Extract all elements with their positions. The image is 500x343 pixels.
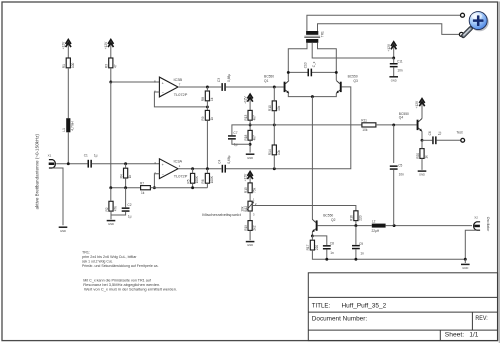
wire C11 to ground (393, 67, 395, 76)
svg-text:Primär- und Sekundärwicklung a: Primär- und Sekundärwicklung auf Ferritp… (82, 264, 159, 268)
connector X1 (48, 153, 56, 168)
resistor R15 (244, 183, 257, 193)
wire Q2 base run (318, 225, 372, 227)
wire R12 to R19 (249, 211, 251, 221)
svg-text:10n: 10n (399, 173, 405, 177)
svg-text:GND: GND (462, 266, 469, 270)
svg-text:10k: 10k (362, 128, 368, 132)
capacitor C7 (228, 131, 238, 146)
svg-text:TR1: TR1 (320, 31, 324, 37)
wire R5 bottom stub (192, 183, 194, 188)
junction R4 top on signal wire (124, 162, 127, 165)
svg-text:X1: X1 (48, 153, 52, 157)
svg-text:GND: GND (391, 78, 398, 82)
label Q4 name (399, 116, 404, 120)
svg-text:C1: C1 (84, 153, 88, 157)
wire R10 to R14 (273, 111, 275, 145)
wire feedback bottom (154, 187, 207, 189)
svg-text:R18: R18 (244, 135, 248, 141)
wire bias rail (250, 124, 362, 126)
wire R14 bottom stub (273, 155, 275, 169)
wire R2 C2 join to ground (111, 211, 126, 215)
wire R20 to ground (421, 158, 423, 170)
svg-text:TL072P: TL072P (174, 92, 188, 97)
ground (107, 221, 116, 227)
svg-text:IC3A: IC3A (174, 159, 183, 164)
wire R3 down col2 (110, 68, 112, 82)
resistor R6 (201, 173, 214, 183)
svg-text:R13: R13 (244, 115, 248, 121)
label Test (456, 131, 462, 135)
capacitor C11 (390, 59, 403, 72)
wire bias node to IC3B pin5 (111, 81, 160, 83)
svg-text:Test: Test (456, 131, 462, 135)
wire lower node to R7 (111, 187, 141, 189)
label Q2 type (323, 214, 333, 218)
junction L1 / X1 / C1 (67, 162, 70, 165)
svg-text:47: 47 (113, 64, 117, 68)
capacitor C4 (217, 155, 231, 172)
svg-text:GND: GND (419, 173, 426, 177)
svg-text:TR1:: TR1: (82, 250, 90, 254)
wire R19 to ground (249, 230, 251, 240)
junction R8 top on output (206, 86, 209, 89)
wire C1 to IC3A pin3 (92, 163, 159, 165)
resistor R11 (361, 119, 376, 133)
svg-text:X2: X2 (474, 215, 478, 219)
svg-text:R11: R11 (361, 119, 367, 123)
wire Q2 emitter (311, 232, 313, 236)
svg-text:Q3: Q3 (353, 79, 358, 83)
junction emitter rail center (311, 95, 314, 98)
resistor R7 (140, 182, 150, 196)
svg-text:Q1: Q1 (264, 79, 269, 83)
junction R5 bottom (191, 186, 194, 189)
junction R16 / base wire (354, 224, 357, 227)
junction R10 / R14 / rail (273, 123, 276, 126)
svg-text:R1: R1 (62, 64, 66, 68)
svg-text:1k: 1k (128, 174, 132, 178)
svg-text:10n: 10n (397, 69, 403, 73)
resistor R9 (201, 110, 214, 120)
junction R14 bottom on C4 wire (273, 167, 276, 170)
wire R4 top stub (125, 164, 127, 169)
junction R4 bottom / C2 top (124, 186, 127, 189)
wire pad2 to TR1 primary (318, 24, 460, 35)
svg-text:10k: 10k (277, 105, 281, 111)
wire C4 to Q3 base (226, 87, 351, 169)
transistor Q1 (284, 81, 289, 94)
ground (389, 77, 398, 83)
svg-text:Mischerarbeitspunkt: Mischerarbeitspunkt (202, 212, 242, 217)
svg-text:C11: C11 (397, 59, 403, 63)
wire R5 top stub (192, 169, 194, 174)
wire R9 to IC3A output wire (206, 120, 208, 169)
capacitor C3 (217, 74, 231, 91)
svg-text:BC550: BC550 (264, 74, 274, 78)
wire junction to R20 (421, 140, 423, 148)
wire C7 branch top (232, 125, 250, 135)
svg-text:7: 7 (179, 83, 181, 87)
svg-text:C9: C9 (359, 242, 363, 246)
junction R5 top (191, 167, 194, 170)
resistor R14 (268, 145, 281, 155)
wire Q4 emitter down (421, 131, 423, 140)
svg-text:R14: R14 (268, 149, 272, 155)
svg-text:Document Number:: Document Number: (312, 315, 368, 322)
wire IC3A pin2 feedback (154, 174, 159, 188)
wire C7 branch bottom (232, 140, 250, 145)
resistor R10 (268, 101, 281, 111)
svg-text:sek 1 od.2 Wdg CuL: sek 1 od.2 Wdg CuL (82, 259, 113, 263)
junction R13 / R18 / C7 / rail (249, 123, 252, 126)
capacitor C1 (84, 153, 98, 167)
wire TR1 secondary right to Q3 collector (318, 43, 337, 80)
wire R1 to L1 (67, 68, 69, 118)
svg-text:C2: C2 (127, 203, 131, 207)
svg-text:220: 220 (359, 215, 363, 221)
junction +12V / center tap / C11 (392, 57, 395, 60)
ground (418, 171, 427, 177)
+12V supply symbol (415, 99, 425, 119)
svg-text:+12V: +12V (387, 43, 391, 51)
svg-text:R10: R10 (268, 105, 272, 111)
junction L2 / C5 / X2 wire (393, 224, 396, 227)
svg-text:100K: 100K (210, 175, 214, 183)
wire R6 top stub (206, 169, 208, 174)
wire R15 to R12 (249, 193, 251, 202)
wire L1 to input node (67, 132, 69, 163)
junction Q4 emitter / C6 / R20 (421, 139, 424, 142)
svg-text:R19: R19 (244, 225, 248, 231)
svg-text:GND: GND (108, 222, 115, 226)
ground (59, 227, 68, 233)
junction pin2 / R7 / R5R6 wire (153, 186, 156, 189)
svg-text:3: 3 (154, 161, 156, 165)
+12V supply symbol (243, 172, 253, 183)
+12V supply symbol (104, 40, 114, 58)
svg-text:4,7mH: 4,7mH (71, 121, 75, 131)
label Q2 name (331, 218, 336, 222)
svg-text:Resonanz bei 3,5MHz abgegliche: Resonanz bei 3,5MHz abgeglichen werden. (83, 283, 160, 287)
note C_x tuning (83, 278, 177, 291)
+12V supply symbol (243, 94, 253, 110)
wire C5 vertical bottom (393, 170, 395, 226)
svg-text:Mit C_x kann die Primärseite v: Mit C_x kann die Primärseite von TR1 auf (83, 278, 151, 282)
svg-text:100: 100 (71, 62, 75, 68)
wire IC3B output (178, 86, 221, 88)
+12V supply symbol (387, 42, 397, 58)
wire R7 to feedback node (150, 187, 154, 189)
svg-text:Wert von C_x muß in der Schalt: Wert von C_x muß in der Schaltung ermitt… (84, 287, 177, 291)
svg-text:GND: GND (60, 229, 67, 233)
svg-text:1k: 1k (141, 191, 145, 195)
svg-text:C10: C10 (303, 62, 307, 68)
svg-text:22µH: 22µH (372, 229, 380, 233)
svg-text:0,68µ: 0,68µ (227, 74, 231, 82)
op-amp IC3A (154, 159, 188, 179)
resistor R8 (201, 91, 214, 101)
label Q1 name (264, 79, 269, 83)
wire R16 bottom stub (355, 221, 357, 226)
ground (246, 242, 255, 248)
svg-text:GND: GND (247, 156, 254, 160)
svg-text:1n: 1n (360, 252, 364, 256)
capacitor C9 (352, 242, 364, 256)
resistor R17 (306, 240, 319, 250)
svg-text:1: 1 (179, 164, 181, 168)
wire C9 to rail (355, 249, 357, 259)
svg-text:Q2: Q2 (331, 218, 336, 222)
capacitor C10 (303, 61, 316, 76)
svg-text:100K: 100K (195, 175, 199, 183)
wire emitters to Q2 collector (311, 97, 313, 220)
svg-text:L2: L2 (372, 219, 376, 223)
svg-text:TITLE:: TITLE: (312, 302, 331, 309)
label Mischerarbeitspunkt (202, 212, 242, 217)
resistor R3 (105, 58, 118, 68)
wire pad1 to TR1 primary (307, 15, 463, 31)
wire X1 shield to ground (52, 168, 63, 225)
wire +12V node to C11 (393, 58, 395, 63)
transistor Q2 (312, 219, 317, 232)
capacitor C8 (323, 242, 334, 255)
resistor R18 (244, 130, 257, 140)
wire C2 top stub (125, 188, 127, 208)
title block sheet row (445, 331, 479, 338)
svg-text:GND: GND (247, 243, 254, 247)
screen right edge strip (499, 2, 500, 343)
svg-text:+12V: +12V (104, 41, 108, 49)
svg-text:R2: R2 (105, 207, 109, 211)
wire to gnd b (110, 215, 112, 219)
connector X2 (474, 215, 490, 232)
svg-text:1k: 1k (210, 117, 214, 121)
wire R17 to rail (312, 250, 465, 259)
svg-text:L1: L1 (62, 128, 66, 132)
svg-text:R9: R9 (201, 116, 205, 120)
transistor Q3 (336, 81, 341, 94)
svg-text:1k: 1k (425, 155, 429, 159)
junction Q2 emitter / R17 / C8 (311, 234, 314, 237)
junction R6 top / R9 bottom (206, 167, 209, 170)
svg-text:10k: 10k (277, 149, 281, 155)
svg-text:prim 2x4 bis 2x6 Wdg CuL, bifi: prim 2x4 bis 2x6 Wdg CuL, bifilar (82, 255, 137, 259)
junction C8 bottom rail (325, 258, 328, 261)
wire R8 top stub (206, 87, 208, 91)
svg-text:REV:: REV: (475, 315, 488, 322)
title block frame (308, 273, 497, 341)
svg-text:4k7: 4k7 (253, 135, 257, 140)
svg-text:C7: C7 (233, 131, 237, 135)
wire collectors to C10 (288, 71, 308, 73)
svg-text:2k2: 2k2 (253, 225, 257, 230)
svg-text:75k: 75k (253, 187, 257, 193)
title block TITLE row (312, 302, 387, 309)
wire IC3B pin6 feedback (154, 92, 207, 107)
junction lower node col2 (109, 186, 112, 189)
svg-text:R8: R8 (201, 97, 205, 101)
wire C6 to Test pad (437, 139, 461, 141)
svg-text:R15: R15 (244, 187, 248, 193)
svg-text:220: 220 (315, 245, 319, 251)
transistor Q4 (417, 119, 422, 132)
wire emitter rail (288, 93, 336, 96)
svg-text:C3: C3 (217, 78, 221, 82)
svg-text:4k7: 4k7 (253, 115, 257, 120)
label Q4 type (399, 112, 409, 116)
note TR1 winding (82, 250, 159, 268)
op-amp IC3B (154, 77, 188, 97)
svg-text:+12V: +12V (62, 41, 66, 49)
resistor R13 (244, 110, 257, 120)
wire IC3A output (178, 168, 221, 170)
svg-text:1µ: 1µ (128, 214, 132, 218)
svg-text:R4: R4 (119, 174, 123, 178)
junction R18 bottom / C7 (249, 143, 252, 146)
junction left collector / C10 (287, 71, 290, 74)
svg-text:1µ: 1µ (438, 131, 442, 135)
+12V supply symbol (62, 40, 72, 58)
svg-text:C8: C8 (330, 242, 334, 246)
svg-text:+12V: +12V (415, 100, 419, 108)
wire emitter to R17 (311, 236, 313, 240)
svg-text:R7: R7 (140, 182, 144, 186)
wire R13 to node (249, 120, 251, 130)
magnifier zoom icon (463, 12, 489, 36)
svg-text:TL072P: TL072P (174, 174, 188, 179)
capacitor C6 (428, 131, 442, 144)
wire R4 bottom stub (125, 178, 127, 188)
wire L2 to X2 (386, 225, 472, 227)
wire C3 to Q1 base (226, 86, 284, 88)
wire R6 bottom stub (206, 183, 208, 188)
svg-text:R17: R17 (306, 244, 310, 250)
resistor R19 (244, 221, 257, 231)
wire C9 branch (355, 226, 357, 245)
svg-text:IC3B: IC3B (174, 77, 183, 82)
wire X2 shield to ground (465, 230, 476, 259)
wire C5 vertical top (393, 125, 395, 163)
wire TR1 secondary left to Q1 collector (288, 43, 307, 80)
wire R10 top stub (273, 87, 275, 101)
wire rail to ground g (464, 259, 466, 263)
svg-text:Oscillator: Oscillator (486, 217, 490, 232)
connector pad 1 (461, 13, 465, 17)
svg-text:C_x: C_x (312, 61, 316, 67)
svg-text:R6: R6 (201, 179, 205, 183)
wire C8 to rail (326, 250, 328, 260)
svg-text:47k: 47k (114, 206, 118, 212)
svg-text:Huff_Puff_35_2: Huff_Puff_35_2 (342, 303, 387, 310)
wire C8 branch (312, 236, 326, 245)
wire R11 to Q4 base (376, 124, 417, 126)
junction R10 top on Q1 base wire (273, 86, 276, 89)
resistor R20 (416, 149, 429, 159)
title block document row (312, 315, 488, 322)
junction C9 bottom rail (354, 258, 357, 261)
svg-text:aktive Breitbandantenne (~0-15: aktive Breitbandantenne (~0-150kHz) (35, 133, 40, 209)
transformer TR1 (304, 31, 324, 43)
svg-text:C4: C4 (217, 159, 221, 163)
svg-text:Q4: Q4 (399, 116, 404, 120)
connector pad 2 (459, 32, 463, 36)
svg-text:R5: R5 (186, 179, 190, 183)
resistor R16 (350, 211, 363, 221)
svg-text:1n: 1n (330, 251, 334, 255)
svg-text:R3: R3 (105, 64, 109, 68)
junction R8 / R9 / feedback (206, 105, 209, 108)
junction right collector / C10 (335, 71, 338, 74)
svg-text:1µ: 1µ (94, 153, 98, 157)
ground (246, 154, 255, 160)
junction ground rail / X2 (464, 258, 467, 261)
ground (461, 264, 470, 270)
inductor L2 (372, 219, 386, 233)
trimmer R12 (240, 198, 257, 217)
resistor R5 (186, 173, 199, 183)
svg-text:R12: R12 (244, 206, 248, 212)
wire node to R2 (110, 188, 112, 202)
wire R18 to gnd node (249, 140, 251, 152)
svg-text:C6: C6 (428, 131, 432, 135)
wire R12 wiper to R16 (252, 206, 356, 211)
test point pad (461, 138, 465, 142)
svg-text:R16: R16 (350, 215, 354, 221)
capacitor C2 (122, 203, 132, 218)
inductor L1 (62, 118, 75, 132)
svg-text:1/1: 1/1 (469, 331, 479, 338)
svg-text:+12V: +12V (243, 95, 247, 103)
label Q1 type (264, 74, 274, 78)
svg-text:1k: 1k (210, 97, 214, 101)
wire R8 to R9 (206, 101, 208, 111)
label antenna note (35, 133, 40, 209)
svg-text:R20: R20 (416, 153, 420, 159)
label Q3 type (348, 75, 358, 79)
resistor R4 (119, 168, 132, 178)
resistor R2 (105, 201, 118, 211)
svg-text:10k: 10k (240, 206, 244, 212)
svg-text:3: 3 (253, 212, 255, 216)
svg-text:5: 5 (154, 79, 156, 83)
svg-text:0,68µ: 0,68µ (227, 155, 231, 163)
wire C10 to right collector (312, 71, 337, 73)
capacitor C5 (390, 163, 404, 176)
resistor R1 (62, 58, 75, 68)
wire emitter to C6 (422, 139, 432, 141)
junction bias node / IC3B + (109, 81, 112, 84)
junction C5 line on rail (392, 123, 395, 126)
wire X1 to input node (56, 163, 87, 165)
svg-text:C5: C5 (398, 163, 402, 167)
wire TR1 center tap to +12V node (312, 43, 394, 58)
svg-text:Sheet:: Sheet: (445, 331, 465, 338)
label Q3 name (353, 79, 358, 83)
svg-text:+12V: +12V (243, 173, 247, 181)
wire col2 down to lower node (110, 82, 112, 188)
